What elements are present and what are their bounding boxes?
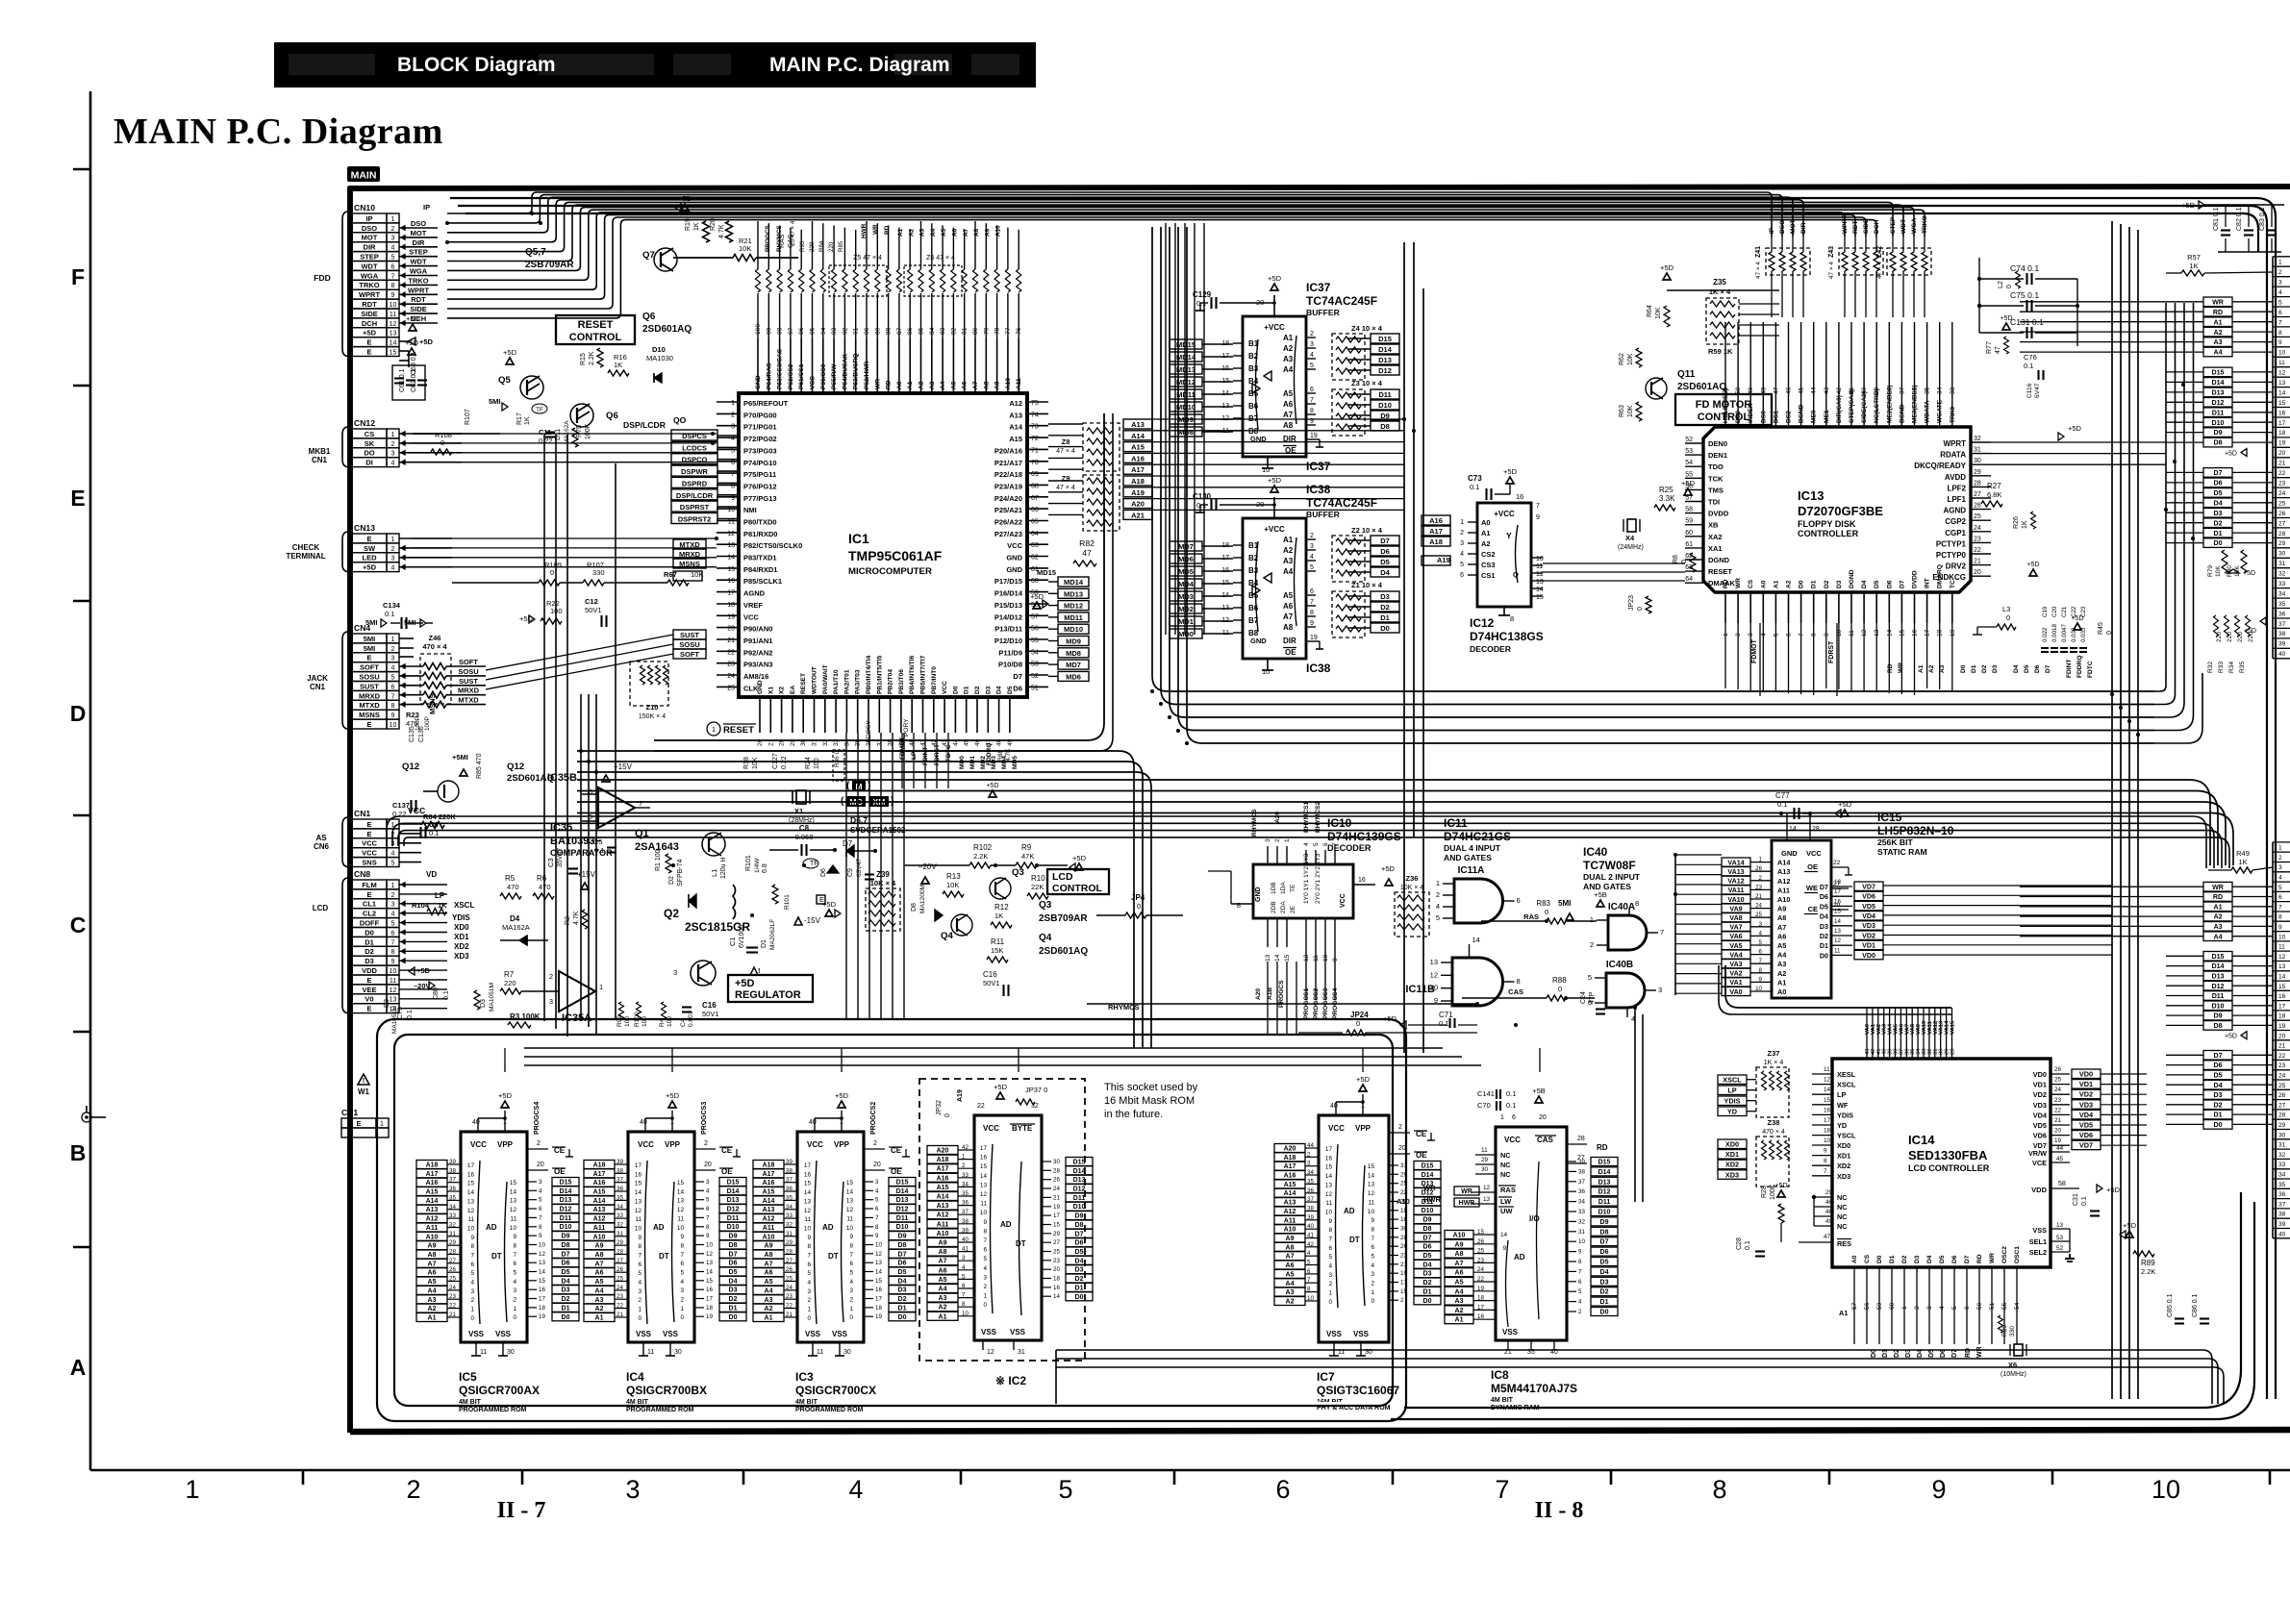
svg-text:MAIN P.C. Diagram: MAIN P.C. Diagram	[113, 112, 443, 152]
svg-text:DIR: DIR	[364, 243, 377, 252]
svg-text:26: 26	[2054, 1066, 2062, 1073]
svg-text:+VCC: +VCC	[1264, 323, 1285, 332]
svg-text:16: 16	[2278, 993, 2286, 1000]
svg-text:P11/D9: P11/D9	[998, 648, 1022, 657]
svg-text:D7: D7	[1423, 1235, 1432, 1241]
svg-text:P55/R/W: P55/R/W	[831, 363, 838, 389]
svg-text:A20: A20	[1284, 1146, 1296, 1153]
svg-text:18: 18	[1834, 879, 1841, 886]
svg-text:MICROCOMPUTER: MICROCOMPUTER	[848, 566, 932, 577]
svg-text:A21: A21	[1131, 511, 1145, 519]
svg-text:WR: WR	[2212, 884, 2224, 891]
svg-text:D3: D3	[2213, 510, 2222, 517]
svg-text:24: 24	[1053, 1186, 1060, 1192]
svg-text:1: 1	[1590, 915, 1594, 924]
svg-text:C12: C12	[585, 597, 598, 606]
svg-text:10: 10	[1307, 1295, 1314, 1302]
svg-text:A15: A15	[426, 1189, 439, 1196]
svg-text:TC74AC245F: TC74AC245F	[1306, 294, 1377, 308]
svg-text:PROGRAMMED ROM: PROGRAMMED ROM	[795, 1407, 864, 1413]
svg-text:D10: D10	[560, 1224, 572, 1231]
svg-text:17: 17	[980, 1145, 988, 1152]
svg-text:A3: A3	[1286, 1289, 1295, 1296]
svg-text:17: 17	[2278, 420, 2286, 427]
svg-text:3: 3	[549, 997, 553, 1006]
svg-text:R32: R32	[2207, 662, 2214, 673]
svg-text:7: 7	[391, 693, 395, 700]
svg-text:GND: GND	[1255, 887, 1262, 902]
svg-text:VCC: VCC	[1504, 1136, 1521, 1144]
svg-text:9: 9	[391, 712, 395, 719]
svg-text:5: 5	[849, 1270, 853, 1277]
svg-text:A16: A16	[426, 1180, 439, 1187]
svg-text:QSIGT3C16067: QSIGT3C16067	[1317, 1384, 1399, 1397]
svg-text:15: 15	[2278, 984, 2286, 990]
svg-text:FLM: FLM	[362, 881, 376, 889]
svg-text:A0: A0	[1851, 1255, 1858, 1263]
svg-text:4: 4	[2278, 289, 2282, 296]
svg-text:CN6: CN6	[314, 842, 330, 851]
svg-text:2: 2	[391, 226, 395, 233]
svg-text:11: 11	[510, 1215, 516, 1222]
svg-text:16: 16	[1824, 1107, 1831, 1113]
svg-text:AD: AD	[1514, 1253, 1525, 1262]
svg-text:A9: A9	[939, 1240, 947, 1247]
svg-text:A1: A1	[897, 228, 904, 237]
svg-text:8: 8	[513, 1243, 516, 1250]
svg-text:PROGRAMMED ROM: PROGRAMMED ROM	[459, 1407, 527, 1413]
svg-text:2DB: 2DB	[1271, 901, 1277, 913]
svg-text:A4: A4	[939, 1287, 947, 1293]
svg-text:DIR(CA0): DIR(CA0)	[1836, 395, 1843, 423]
svg-text:5: 5	[391, 861, 395, 867]
svg-text:A2: A2	[1286, 1299, 1295, 1306]
svg-text:MD7: MD7	[1178, 542, 1194, 551]
svg-text:VSS: VSS	[663, 1330, 679, 1338]
svg-text:R62: R62	[1619, 353, 1625, 365]
svg-text:7: 7	[706, 1214, 710, 1221]
svg-text:46: 46	[1825, 1199, 1833, 1206]
svg-text:47K: 47K	[1021, 852, 1034, 861]
svg-text:RD: RD	[1597, 1143, 1608, 1152]
svg-text:A8: A8	[1777, 913, 1786, 922]
svg-text:AM8/16: AM8/16	[743, 672, 768, 681]
svg-text:A1: A1	[595, 1315, 604, 1322]
svg-text:24: 24	[1974, 525, 1981, 532]
svg-text:DSPRST2: DSPRST2	[678, 515, 712, 524]
svg-text:5: 5	[1460, 562, 1464, 568]
svg-text:35: 35	[2278, 601, 2286, 608]
svg-text:BGND: BGND	[1899, 404, 1905, 423]
svg-text:P21/A17: P21/A17	[994, 459, 1022, 467]
svg-text:D74HC21GS: D74HC21GS	[1444, 830, 1511, 843]
svg-text:A11: A11	[937, 1221, 949, 1228]
svg-text:19: 19	[539, 1313, 545, 1320]
svg-text:P52/HWR: P52/HWR	[864, 361, 870, 389]
svg-text:69: 69	[1031, 471, 1039, 478]
svg-text:C80: C80	[433, 987, 440, 1000]
svg-text:6: 6	[1578, 1279, 1582, 1286]
svg-text:11: 11	[1536, 563, 1543, 570]
svg-text:39: 39	[1307, 1214, 1314, 1221]
svg-text:CN12: CN12	[354, 418, 375, 428]
svg-text:CS: CS	[1864, 1254, 1871, 1263]
svg-text:1: 1	[391, 216, 395, 223]
svg-text:0: 0	[680, 1314, 684, 1321]
svg-text:A20: A20	[1255, 988, 1262, 1000]
svg-text:MOT: MOT	[411, 229, 427, 237]
svg-text:7: 7	[1495, 1475, 1509, 1504]
svg-text:38: 38	[617, 1167, 623, 1174]
svg-text:4: 4	[539, 1187, 542, 1194]
svg-text:0: 0	[2006, 613, 2010, 622]
svg-text:40: 40	[809, 1119, 817, 1126]
svg-text:22K: 22K	[1031, 883, 1044, 891]
svg-text:7: 7	[1536, 503, 1540, 510]
svg-text:16: 16	[1358, 877, 1366, 884]
svg-text:0: 0	[849, 1314, 853, 1321]
svg-text:D0: D0	[562, 1314, 570, 1321]
svg-text:A3: A3	[595, 1297, 604, 1304]
svg-text:VSS: VSS	[1502, 1328, 1519, 1337]
svg-text:WPRT: WPRT	[359, 290, 380, 299]
svg-text:19: 19	[2054, 1137, 2062, 1144]
svg-text:D1: D1	[761, 939, 768, 948]
svg-text:A1: A1	[1283, 536, 1294, 544]
svg-text:D6: D6	[2213, 1062, 2222, 1069]
svg-text:11: 11	[647, 1349, 654, 1356]
svg-text:A5: A5	[1777, 941, 1786, 950]
svg-text:38: 38	[1578, 1168, 1585, 1175]
svg-text:D8: D8	[729, 1242, 738, 1249]
svg-text:28: 28	[2278, 1112, 2286, 1119]
svg-text:40: 40	[962, 1237, 969, 1243]
svg-text:25: 25	[2278, 500, 2286, 507]
svg-text:D7: D7	[1380, 537, 1390, 545]
svg-text:D6: D6	[1600, 1249, 1609, 1256]
svg-text:JP23: JP23	[1628, 595, 1635, 611]
svg-text:2: 2	[2278, 855, 2282, 862]
svg-text:A8: A8	[983, 381, 990, 389]
svg-text:VA10: VA10	[1727, 896, 1744, 904]
svg-text:A2: A2	[908, 228, 915, 237]
svg-text:18: 18	[727, 602, 735, 609]
svg-text:D7: D7	[729, 1251, 738, 1258]
svg-text:11: 11	[804, 1216, 811, 1223]
svg-text:5: 5	[1436, 913, 1440, 922]
svg-text:D14: D14	[2211, 379, 2224, 387]
svg-text:36: 36	[617, 1186, 623, 1192]
svg-text:R77: R77	[1986, 341, 1993, 354]
svg-text:23: 23	[2278, 1062, 2286, 1069]
svg-text:SUST: SUST	[680, 631, 699, 639]
svg-text:47: 47	[1995, 346, 2001, 354]
svg-text:SEL1: SEL1	[2029, 1237, 2047, 1246]
svg-text:37: 37	[1307, 1196, 1314, 1203]
svg-text:QSIGCR700CX: QSIGCR700CX	[795, 1384, 876, 1397]
svg-text:MD15: MD15	[1176, 340, 1195, 349]
svg-text:D4: D4	[510, 914, 520, 923]
svg-text:NC: NC	[1837, 1222, 1848, 1231]
svg-text:50V1: 50V1	[702, 1010, 719, 1018]
svg-text:11: 11	[677, 1215, 684, 1222]
svg-text:A16: A16	[937, 1175, 949, 1182]
svg-text:A13: A13	[1009, 411, 1022, 419]
svg-text:NC: NC	[1500, 1151, 1511, 1160]
svg-text:MRXD: MRXD	[458, 687, 480, 695]
svg-text:13: 13	[1265, 954, 1271, 962]
svg-text:A9: A9	[765, 1243, 773, 1250]
svg-text:28: 28	[1950, 1048, 1956, 1055]
svg-text:13: 13	[510, 1198, 517, 1205]
svg-text:27: 27	[786, 1258, 793, 1264]
svg-text:AD: AD	[486, 1223, 497, 1232]
svg-text:D3: D3	[480, 999, 487, 1008]
svg-text:A4: A4	[765, 1287, 773, 1294]
svg-text:34: 34	[1307, 1169, 1314, 1176]
svg-text:11: 11	[2278, 360, 2285, 366]
svg-text:D5: D5	[1600, 1260, 1609, 1266]
svg-text:PROGCS2: PROGCS2	[870, 1102, 877, 1135]
svg-text:C61 0.1: C61 0.1	[399, 368, 406, 392]
svg-text:DIR: DIR	[413, 238, 426, 247]
svg-text:0.033: 0.033	[2080, 627, 2087, 642]
svg-text:C19: C19	[2042, 606, 2049, 617]
svg-text:10: 10	[727, 507, 735, 513]
svg-text:DEN0: DEN0	[1708, 439, 1727, 448]
svg-text:4: 4	[680, 1279, 684, 1286]
svg-text:8: 8	[875, 1224, 879, 1231]
svg-text:9: 9	[539, 1233, 542, 1239]
svg-text:23: 23	[786, 1293, 793, 1300]
svg-text:E: E	[366, 830, 371, 838]
svg-text:Z38: Z38	[1768, 1118, 1780, 1127]
svg-text:36: 36	[786, 1186, 793, 1192]
svg-text:+5D: +5D	[406, 314, 420, 323]
svg-text:0: 0	[1137, 902, 1141, 911]
svg-text:Z4 10 × 4: Z4 10 × 4	[1351, 324, 1383, 333]
svg-text:A12: A12	[426, 1216, 439, 1223]
svg-text:V0: V0	[365, 995, 373, 1004]
svg-text:21: 21	[1053, 1194, 1060, 1201]
svg-text:12: 12	[727, 531, 735, 537]
svg-text:C75 0.1: C75 0.1	[2010, 290, 2039, 300]
svg-text:4M BIT: 4M BIT	[1491, 1397, 1514, 1404]
svg-text:A5: A5	[950, 381, 957, 389]
svg-text:6: 6	[391, 930, 395, 937]
svg-text:27: 27	[2278, 520, 2286, 527]
svg-text:14: 14	[1325, 1173, 1333, 1180]
svg-text:17: 17	[1053, 1212, 1060, 1219]
svg-text:10: 10	[2278, 350, 2286, 357]
svg-text:34: 34	[617, 1204, 623, 1211]
svg-text:2: 2	[1400, 1297, 1404, 1304]
svg-text:3: 3	[638, 1288, 642, 1295]
svg-text:23: 23	[727, 662, 735, 668]
svg-text:38: 38	[786, 1167, 793, 1174]
svg-text:0.022: 0.022	[2042, 627, 2049, 642]
svg-text:A2: A2	[1283, 546, 1294, 555]
svg-text:IP: IP	[423, 203, 430, 212]
svg-text:58: 58	[2058, 1181, 2066, 1187]
svg-text:P73/PG03: P73/PG03	[743, 446, 777, 455]
svg-text:15: 15	[510, 1180, 517, 1187]
svg-text:A14: A14	[1009, 423, 1023, 432]
svg-text:6: 6	[1310, 387, 1314, 393]
svg-text:17: 17	[1834, 888, 1841, 895]
svg-text:36: 36	[2278, 1191, 2286, 1198]
svg-text:P77/PG13: P77/PG13	[743, 494, 777, 503]
svg-text:RAS: RAS	[1523, 912, 1539, 921]
svg-text:+5D: +5D	[2026, 562, 2039, 568]
svg-text:15: 15	[1284, 954, 1291, 962]
svg-text:11: 11	[480, 1349, 487, 1356]
svg-text:4: 4	[1371, 1262, 1374, 1269]
svg-text:470 × 4: 470 × 4	[1762, 1129, 1785, 1136]
svg-text:35: 35	[962, 1190, 969, 1197]
svg-text:2.2K: 2.2K	[973, 852, 988, 861]
svg-text:D0: D0	[1380, 624, 1390, 633]
svg-text:10: 10	[1325, 1210, 1333, 1216]
svg-text:40: 40	[640, 1119, 647, 1126]
svg-text:C16: C16	[983, 970, 997, 979]
svg-text:HWR: HWR	[861, 223, 868, 238]
svg-text:AS: AS	[315, 834, 327, 842]
svg-text:D4: D4	[1926, 1255, 1933, 1263]
svg-text:1: 1	[962, 1154, 966, 1161]
svg-text:LCD CONTROLLER: LCD CONTROLLER	[1908, 1163, 1990, 1173]
svg-text:12: 12	[635, 1208, 642, 1214]
svg-text:IC3: IC3	[795, 1370, 814, 1384]
svg-text:470: 470	[507, 883, 519, 891]
svg-text:Q2: Q2	[664, 907, 679, 920]
svg-text:VD0: VD0	[1862, 952, 1875, 960]
svg-text:TDI: TDI	[1708, 498, 1720, 507]
svg-text:38: 38	[962, 1218, 969, 1225]
svg-text:CONTROL: CONTROL	[1698, 412, 1750, 423]
svg-text:D15: D15	[2211, 369, 2224, 377]
svg-text:PA3/T03: PA3/T03	[855, 669, 862, 694]
svg-text:18: 18	[2278, 1013, 2286, 1020]
svg-text:17: 17	[2278, 1003, 2286, 1010]
svg-text:PCTYP0: PCTYP0	[1936, 551, 1967, 560]
svg-text:D3: D3	[1600, 1279, 1609, 1286]
svg-text:26: 26	[1974, 503, 1981, 510]
svg-text:E: E	[366, 976, 371, 985]
svg-text:Q11: Q11	[1677, 369, 1696, 380]
svg-text:13: 13	[2278, 963, 2286, 970]
svg-text:C24: C24	[1580, 991, 1587, 1004]
svg-text:A6: A6	[1777, 932, 1786, 940]
svg-text:18: 18	[539, 1305, 545, 1312]
svg-text:YDIS: YDIS	[1724, 1097, 1740, 1106]
svg-text:CS: CS	[1748, 579, 1754, 588]
svg-text:VD4: VD4	[1862, 912, 1875, 920]
svg-text:A12: A12	[763, 1216, 775, 1223]
svg-text:SEL2: SEL2	[2029, 1248, 2047, 1257]
svg-text:R79: R79	[2207, 565, 2214, 577]
svg-text:7: 7	[731, 471, 735, 478]
svg-text:A9: A9	[428, 1243, 437, 1250]
svg-text:Z6 47 × 4: Z6 47 × 4	[926, 255, 955, 262]
svg-text:R84: R84	[818, 240, 825, 252]
svg-text:A17: A17	[937, 1166, 949, 1173]
svg-text:(24MHz): (24MHz)	[1618, 544, 1644, 551]
svg-text:+5D: +5D	[2068, 424, 2082, 433]
svg-text:DSPRST: DSPRST	[680, 503, 710, 512]
svg-text:A5: A5	[1286, 1271, 1295, 1278]
svg-text:73: 73	[1031, 424, 1039, 431]
svg-text:VD4: VD4	[2033, 1111, 2048, 1119]
svg-text:D0: D0	[2213, 1121, 2222, 1129]
svg-text:7: 7	[539, 1214, 542, 1221]
svg-text:5: 5	[1058, 1475, 1072, 1504]
svg-text:XD3: XD3	[454, 952, 469, 961]
svg-text:PROGCS4: PROGCS4	[534, 1102, 541, 1135]
svg-text:3.3K: 3.3K	[1659, 494, 1675, 503]
svg-text:D15: D15	[2211, 953, 2224, 961]
svg-text:25: 25	[1974, 513, 1981, 520]
svg-text:100: 100	[667, 1016, 673, 1027]
svg-text:12: 12	[467, 1208, 475, 1214]
svg-text:D10: D10	[652, 345, 666, 354]
svg-text:C74 0.1: C74 0.1	[2010, 263, 2039, 273]
svg-text:30: 30	[507, 1349, 515, 1356]
svg-text:1K: 1K	[2022, 520, 2028, 529]
svg-text:D15: D15	[1598, 1160, 1611, 1166]
svg-text:WR: WR	[1989, 1253, 1996, 1263]
svg-text:Z35: Z35	[1713, 278, 1726, 287]
svg-text:D7: D7	[2045, 664, 2051, 673]
svg-text:8: 8	[470, 1243, 474, 1250]
svg-text:13: 13	[804, 1198, 812, 1205]
svg-text:D5: D5	[1075, 1249, 1084, 1256]
svg-text:60: 60	[1031, 578, 1039, 585]
svg-text:MD3: MD3	[991, 756, 997, 769]
svg-text:2: 2	[849, 1297, 853, 1304]
svg-text:5: 5	[731, 447, 735, 454]
svg-text:0: 0	[1328, 1299, 1332, 1306]
svg-text:CN1: CN1	[310, 683, 326, 691]
svg-text:A1: A1	[2213, 903, 2222, 911]
svg-text:5MI: 5MI	[489, 397, 501, 406]
svg-text:1K: 1K	[693, 222, 700, 231]
svg-text:E: E	[356, 1119, 361, 1128]
svg-text:14: 14	[1472, 936, 1480, 944]
svg-text:25: 25	[617, 1276, 623, 1283]
svg-text:WR: WR	[1735, 578, 1742, 588]
svg-text:WDTOUT: WDTOUT	[812, 666, 818, 694]
svg-text:A8: A8	[595, 1252, 604, 1259]
svg-text:3: 3	[2278, 864, 2282, 871]
svg-text:15: 15	[677, 1180, 685, 1187]
svg-text:A0: A0	[896, 381, 903, 389]
svg-text:A17: A17	[1429, 527, 1443, 536]
svg-text:Q5: Q5	[498, 375, 511, 386]
svg-text:C3: C3	[546, 858, 555, 867]
svg-text:VD6: VD6	[1862, 893, 1875, 901]
svg-text:D1: D1	[1600, 1299, 1609, 1306]
svg-text:+5MI: +5MI	[452, 753, 468, 762]
svg-text:100K: 100K	[585, 423, 591, 439]
svg-text:REGULATOR: REGULATOR	[735, 989, 801, 1001]
svg-text:30: 30	[843, 1349, 851, 1356]
svg-text:42: 42	[1307, 1241, 1314, 1248]
svg-text:24: 24	[449, 1285, 456, 1291]
svg-text:2: 2	[1578, 1309, 1582, 1315]
svg-text:A15: A15	[937, 1185, 949, 1191]
svg-text:DSP/LCDR: DSP/LCDR	[676, 491, 714, 500]
